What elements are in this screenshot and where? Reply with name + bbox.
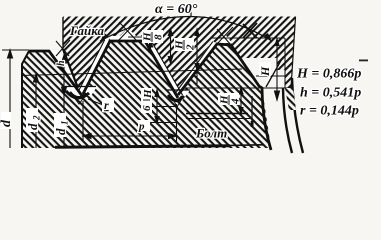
svg-text:h = 0,541р: h = 0,541р <box>300 86 361 101</box>
sliver below y=88 right <box>285 88 296 110</box>
line y=76 <box>256 75 286 77</box>
svg-text:p: p <box>138 121 145 133</box>
svg-text:Гайка: Гайка <box>69 23 105 38</box>
white gap right groove root <box>168 90 190 101</box>
d crest extension line <box>2 49 29 51</box>
H/6 <box>156 91 158 122</box>
white bands + thin nut profile lines along flanks <box>50 39 217 100</box>
svg-text:4: 4 <box>230 98 242 105</box>
svg-text:d: d <box>25 123 40 130</box>
root arcs <box>66 91 89 98</box>
H/8 outside arrows <box>150 28 152 37</box>
svg-text:6: 6 <box>141 105 153 111</box>
svg-text:Болт: Болт <box>195 126 227 141</box>
svg-text:H = 0,866р: H = 0,866р <box>296 67 361 82</box>
svg-text:2: 2 <box>32 115 42 121</box>
H <box>276 40 278 99</box>
bolt body (hatched) <box>22 41 271 148</box>
r leader <box>88 99 103 105</box>
rotated labels <box>0 60 272 135</box>
label white boxes <box>1 30 271 137</box>
svg-text:d: d <box>0 119 14 127</box>
svg-text:h: h <box>56 60 67 66</box>
nut crest flats in grooves <box>65 86 96 88</box>
d2 <box>35 76 37 148</box>
angle arc <box>100 17 272 42</box>
nut root flat line central <box>128 36 152 38</box>
bolt thread helix lines at right <box>283 88 292 153</box>
thick outlines of profile <box>22 17 303 153</box>
H/2 <box>196 30 198 84</box>
svg-text:α = 60°: α = 60° <box>155 2 198 17</box>
rect right edge <box>284 38 286 88</box>
line y=88 <box>186 87 292 89</box>
dimension lines with arrows <box>8 28 280 148</box>
svg-text:8: 8 <box>153 34 165 40</box>
nut body (hatched) <box>63 17 296 99</box>
sharp root level lines <box>148 106 178 108</box>
svg-text:r = 0,144р: r = 0,144р <box>300 104 359 119</box>
p <box>83 135 177 137</box>
svg-text:2: 2 <box>185 44 197 51</box>
theoretical X crossings <box>56 21 257 56</box>
print artifact dash <box>359 60 368 62</box>
sharp root tips <box>73 96 84 104</box>
rect top line <box>210 37 285 39</box>
extra dim line <box>170 30 172 62</box>
d1 + h <box>63 56 65 148</box>
white gap above central tooth crest <box>110 36 145 41</box>
rotated fraction labels H/8 H/2 H/6 H/4 <box>141 32 242 111</box>
d <box>9 52 11 148</box>
white gap left groove root <box>63 87 97 97</box>
pitch line <box>22 69 242 76</box>
svg-text:H: H <box>258 66 272 77</box>
svg-text:H: H <box>142 89 154 99</box>
svg-text:r: r <box>104 98 109 112</box>
small vertical mark near 252 <box>251 96 253 127</box>
svg-text:1: 1 <box>60 121 70 126</box>
next tooth left flank in pocket <box>266 57 283 87</box>
H/4 <box>240 88 242 113</box>
svg-text:d: d <box>53 128 68 135</box>
white gap right tooth apex <box>217 34 232 43</box>
